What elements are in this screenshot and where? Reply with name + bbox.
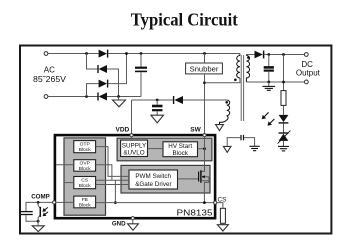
svg-text:Block: Block <box>172 150 188 157</box>
transformer T1 aux winding <box>220 100 230 125</box>
wire bulk cap bottom lead <box>140 72 142 96</box>
wire secondary bottom / output return <box>246 81 304 83</box>
panel supply section <box>117 138 212 161</box>
wire CS external <box>217 203 223 209</box>
wire Y-cap right <box>244 138 255 146</box>
wire VDD cap bottom lead <box>156 111 158 115</box>
optocoupler LED <box>279 115 289 123</box>
node feedback branch top junction <box>282 53 285 56</box>
border frame <box>20 46 331 234</box>
wire stub to primary ground <box>118 97 120 101</box>
wire AC line top <box>48 53 99 55</box>
wire gate line <box>178 178 199 180</box>
svg-text:PWM Switch: PWM Switch <box>135 173 171 180</box>
wire OVP route <box>96 165 112 181</box>
node primary phase dot <box>234 79 237 82</box>
diode D4 bridge <box>98 93 107 101</box>
node secondary phase dot <box>247 56 250 59</box>
svg-text:Snubber: Snubber <box>190 64 219 73</box>
ground primary bridge <box>113 100 126 107</box>
ground CS resistor <box>217 225 228 231</box>
zener shunt regulator <box>278 131 291 144</box>
wire output cap top lead <box>268 55 270 67</box>
DC output terminal minus <box>304 80 308 84</box>
svg-text:PN8135: PN8135 <box>177 207 213 217</box>
wire AC line bottom <box>48 96 98 98</box>
transistor Q1 source taps <box>201 175 209 202</box>
ground VDD cap <box>151 115 164 123</box>
wire VDD cap top lead <box>156 100 158 105</box>
diode D2 bridge <box>98 65 107 73</box>
node SW primary junction <box>203 81 206 84</box>
ground zener earth <box>278 141 289 151</box>
svg-text:&UVLO: &UVLO <box>123 149 144 156</box>
resistor R2 current sense <box>220 208 225 223</box>
node comp ground junction <box>37 220 40 223</box>
wire snubber top lead <box>204 54 206 64</box>
node HV SW junction <box>203 147 206 150</box>
wire output positive <box>264 54 304 56</box>
svg-text:Block: Block <box>79 183 92 189</box>
wire FB tap vertical <box>114 180 116 202</box>
block HV Start <box>163 142 198 157</box>
svg-text:Block: Block <box>79 166 92 172</box>
wire CS resistor to ground <box>222 223 224 224</box>
ground comp network <box>32 226 44 232</box>
wire snubber to SW node <box>204 74 206 134</box>
svg-text:Typical Circuit: Typical Circuit <box>131 10 239 30</box>
wire negative bus <box>107 96 141 98</box>
wire secondary top to output diode <box>246 54 254 56</box>
svg-text:GND: GND <box>112 221 126 228</box>
wire Y-cap left <box>227 138 240 147</box>
wire AC bottom to D3 <box>87 84 99 97</box>
wire OVP stub to IC edge <box>56 164 74 166</box>
wire bulk cap top lead <box>140 54 142 67</box>
snubber block <box>186 63 223 74</box>
svg-text:OVP: OVP <box>80 161 90 167</box>
wire resistor to LED <box>283 105 285 115</box>
wire CS stub <box>64 182 74 184</box>
wire bridge positive rail <box>108 53 240 55</box>
node output cap bottom junction <box>267 81 270 84</box>
wire D2 anode to negative bus <box>107 69 119 97</box>
svg-text:FB: FB <box>82 197 88 203</box>
svg-text:OTP: OTP <box>80 142 90 148</box>
pin GND <box>112 217 135 228</box>
wire feedback branch upper <box>283 55 285 91</box>
svg-text:SW: SW <box>190 127 201 134</box>
pin CS <box>214 197 227 205</box>
pin SW <box>190 127 206 137</box>
ground secondary earth <box>263 82 276 90</box>
transformer T1 core <box>241 55 243 121</box>
svg-text:&Gate Driver: &Gate Driver <box>135 181 171 188</box>
svg-text:AC: AC <box>44 65 55 74</box>
opto light arrows <box>42 207 48 216</box>
capacitor C1 bulk <box>135 68 147 72</box>
transformer T1 primary winding <box>237 54 240 78</box>
wire SW internal drop <box>201 137 205 172</box>
transformer T1 secondary winding <box>246 55 249 83</box>
node COMP opto junction <box>37 201 40 204</box>
panel pwm section <box>121 165 210 193</box>
diode D6 VDD rectifier <box>174 96 183 104</box>
block CS <box>74 177 96 189</box>
ground aux winding <box>216 125 224 131</box>
svg-text:85˜265V: 85˜265V <box>33 75 67 84</box>
transistor Q1 channel bar <box>200 170 202 182</box>
wire VDD rail <box>132 99 174 101</box>
block PWM Switch Gate Driver <box>129 170 178 189</box>
block OVP <box>74 160 96 172</box>
block OTP <box>74 141 96 153</box>
diode D1 bridge <box>99 50 108 58</box>
wire output cap bottom lead <box>268 72 270 82</box>
wire COMP net <box>26 202 53 211</box>
wire AC top to D2 <box>87 54 98 70</box>
node MOSFET source junction <box>203 201 206 204</box>
node aux phase dot <box>225 101 228 104</box>
transistor Q1 gate bar <box>198 172 200 182</box>
block FB <box>74 196 96 208</box>
diode D5 output rectifier <box>255 51 264 59</box>
wire CS upper bus <box>96 179 129 181</box>
wire FB sense line <box>96 202 214 204</box>
AC input terminal top <box>44 52 48 56</box>
node output cap top junction <box>267 53 270 56</box>
node VDD cap junction <box>156 99 159 102</box>
wire supply to HV link <box>148 148 164 150</box>
DC output terminal plus <box>304 53 308 57</box>
svg-text:Output: Output <box>296 69 321 78</box>
node rail D3 junction <box>125 52 128 55</box>
wire OTP route <box>96 147 129 177</box>
svg-text:CS: CS <box>81 178 89 184</box>
wire VDD rail right of diode <box>183 99 227 101</box>
pin COMP <box>31 194 74 204</box>
resistor R1 feedback <box>281 91 286 106</box>
pin VDD <box>116 126 134 140</box>
node feedback branch return junction <box>282 81 285 84</box>
capacitor C2 output <box>264 67 274 70</box>
node AC top junction <box>85 52 88 55</box>
node rail bulk cap junction <box>140 52 143 55</box>
label DC Output <box>296 60 321 77</box>
wire primary bottom <box>205 78 240 83</box>
capacitor C4 Y-cap <box>241 135 244 140</box>
node FB tap junction <box>114 201 117 204</box>
wire D3 cathode to rail <box>108 54 126 84</box>
ground GND pin <box>128 224 139 231</box>
svg-text:VDD: VDD <box>116 126 130 133</box>
diode D3 bridge <box>99 80 108 88</box>
transistor opto phototransistor <box>38 202 40 221</box>
svg-text:Block: Block <box>79 202 92 208</box>
wire comp cap bottom <box>26 215 38 221</box>
ground Y-cap secondary earth <box>249 146 259 150</box>
wire aux top lead <box>225 99 228 102</box>
svg-text:Block: Block <box>79 147 92 153</box>
svg-text:COMP: COMP <box>31 194 50 201</box>
node AC bottom junction <box>85 95 88 98</box>
block SUPPLY UVLO <box>121 140 148 156</box>
wire HV to SW <box>198 148 205 150</box>
AC input terminal bottom <box>44 95 48 99</box>
op IC U1 PN8135 body <box>55 135 215 218</box>
LED emission arrows <box>262 112 275 125</box>
panel protection blocks <box>64 138 106 215</box>
capacitor C3 VDD <box>152 106 163 110</box>
wire LED to zener <box>283 124 285 133</box>
wire VDD pin drop <box>131 100 133 134</box>
wire opto ground stub <box>37 221 39 226</box>
capacitor C5 comp <box>21 212 33 215</box>
node negative bus junction <box>117 95 120 98</box>
wire CS lower line <box>96 184 129 186</box>
ground Y-cap primary side <box>223 146 231 152</box>
node rail snubber junction <box>203 52 206 55</box>
wire GND stub <box>132 220 134 224</box>
